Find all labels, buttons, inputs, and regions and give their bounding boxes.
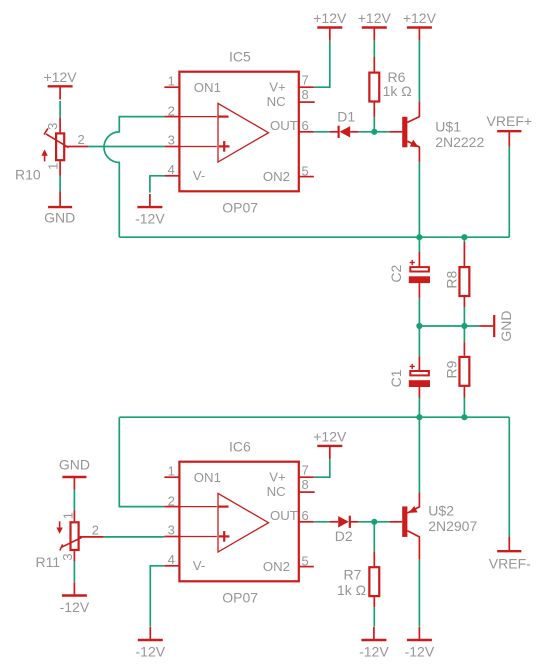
- svg-text:ON2: ON2: [263, 559, 290, 574]
- svg-text:+12V: +12V: [313, 428, 347, 444]
- svg-text:6: 6: [302, 118, 309, 133]
- capacitor C2: [409, 260, 430, 283]
- R11 pin 3 stub: [73, 551, 75, 561]
- IC6 pin 7 stub: [299, 476, 314, 478]
- wire R11 wiper to IC6 pin 3: [104, 536, 165, 538]
- svg-text:2: 2: [92, 523, 99, 538]
- IC5 pin 6 stub: [299, 131, 314, 133]
- svg-text:D2: D2: [335, 528, 353, 544]
- +12V supply symbol (IC6 V+): [313, 428, 347, 459]
- diode D1: [339, 126, 351, 138]
- U$1 emitter lead: [407, 141, 419, 162]
- wire mid rail (GND net): [419, 325, 479, 327]
- svg-text:3: 3: [45, 123, 60, 130]
- U$1 emitter arrow: [410, 140, 419, 147]
- junction bottom rail/C1: [416, 414, 422, 420]
- op-amp IC6: [164, 438, 314, 605]
- IC6 pin 8 stub: [299, 491, 315, 493]
- svg-text:8: 8: [302, 477, 309, 492]
- svg-text:IC5: IC5: [229, 48, 251, 64]
- svg-text:D1: D1: [337, 108, 355, 124]
- wire R7 to -12V: [373, 607, 375, 626]
- svg-text:OP07: OP07: [222, 200, 258, 216]
- wire IC5 pin 4 to -12V: [150, 176, 165, 193]
- +12V supply symbol (R10 top): [44, 69, 78, 100]
- svg-text:8: 8: [302, 87, 309, 102]
- IC5 inverting input line: [179, 116, 217, 118]
- VREF- supply symbol: [489, 537, 531, 572]
- junction bottom rail/R9: [461, 414, 467, 420]
- svg-text:1: 1: [168, 464, 175, 479]
- svg-text:2N2222: 2N2222: [435, 134, 484, 150]
- R9 top lead: [463, 342, 465, 356]
- IC5 plus sign: [219, 145, 230, 147]
- junction rail/R8: [461, 234, 467, 240]
- svg-text:4: 4: [168, 552, 175, 567]
- svg-text:OUT: OUT: [270, 508, 298, 523]
- svg-text:7: 7: [302, 72, 309, 87]
- R11 body: [71, 522, 79, 550]
- wire GND to R11 pin 1: [73, 490, 75, 511]
- IC5 pin 2 stub: [164, 116, 179, 118]
- wire R10 wiper to IC5 pin 3: [88, 146, 164, 148]
- wire R6 to node D1/base: [373, 117, 375, 132]
- +12V supply symbol (R6 top): [358, 10, 392, 41]
- svg-text:ON2: ON2: [263, 169, 290, 184]
- IC6 body: [179, 462, 298, 582]
- GND symbol (mid, rotated): [479, 311, 514, 342]
- svg-text:V+: V+: [269, 80, 286, 95]
- svg-text:V-: V-: [193, 558, 205, 573]
- potentiometer R11: [36, 512, 104, 570]
- svg-text:R10: R10: [15, 166, 41, 182]
- svg-text:3: 3: [168, 523, 175, 538]
- R7 top lead: [373, 552, 375, 566]
- wire bottom rail (VREF- net): [119, 416, 509, 418]
- C2 negative plate: [409, 276, 430, 283]
- wire mid rail to C1: [418, 326, 420, 356]
- IC6 pin 2 stub: [164, 506, 179, 508]
- svg-text:R11: R11: [36, 554, 61, 570]
- wire +12V to U$1 collector: [418, 41, 420, 102]
- svg-text:1: 1: [45, 163, 60, 170]
- R11 adjust arrow: [59, 521, 61, 528]
- C1 positive plate: [410, 371, 429, 375]
- junction mid rail/C2-C1: [416, 323, 422, 329]
- svg-text:ON1: ON1: [194, 470, 221, 485]
- wire rail to C2: [418, 237, 420, 252]
- VREF+ supply symbol: [487, 113, 533, 147]
- svg-text:6: 6: [302, 508, 309, 523]
- svg-text:2: 2: [78, 132, 85, 147]
- R11 pin 2 stub: [80, 536, 104, 538]
- svg-text:1: 1: [60, 512, 75, 519]
- svg-text:1k Ω: 1k Ω: [337, 582, 366, 598]
- wire IC6 pin 4 to -12V: [150, 566, 164, 627]
- C1 negative lead: [418, 387, 420, 398]
- IC6 plus sign: [219, 535, 230, 537]
- R10 pin 1 stub: [59, 161, 61, 176]
- wire VREF+ down to rail: [508, 147, 510, 237]
- svg-text:NC: NC: [267, 94, 287, 109]
- svg-text:-12V: -12V: [135, 211, 165, 227]
- IC5 triangle: [218, 103, 269, 162]
- resistor R7: [369, 567, 379, 596]
- wire IC5 pin 2 feedback (with hop over pin 3 wire): [104, 117, 164, 238]
- R8 top lead: [463, 242, 465, 266]
- U$2 emitter lead: [407, 492, 419, 513]
- wire bottom rail to IC6 pin 2 feedback: [119, 417, 164, 506]
- wire +12V to R10 pin 3: [59, 101, 61, 118]
- GND symbol (above R11): [59, 456, 90, 489]
- svg-text:+12V: +12V: [358, 10, 392, 26]
- svg-text:NC: NC: [267, 484, 287, 499]
- wire bottom rail to VREF-: [508, 417, 510, 536]
- IC5 pin 5 stub: [299, 176, 314, 178]
- -12V supply symbol (U$2 collector): [405, 627, 435, 660]
- svg-text:3: 3: [60, 553, 75, 560]
- wire R11 pin 3 to -12V: [73, 561, 75, 582]
- R10 wiper: [44, 128, 69, 147]
- GND symbol (below R10): [44, 191, 75, 225]
- R6 pin 1 stub: [373, 57, 375, 72]
- wire D2 to node: [358, 521, 374, 523]
- IC5 minus sign: [218, 115, 229, 117]
- svg-text:-12V: -12V: [405, 644, 435, 660]
- svg-text:GND: GND: [59, 456, 90, 472]
- svg-text:V-: V-: [193, 168, 205, 183]
- svg-text:-12V: -12V: [60, 599, 90, 615]
- wire bottom rail to U$2 emitter: [418, 417, 420, 492]
- wire D1 to node: [358, 131, 374, 133]
- resistor R6: [369, 73, 379, 102]
- svg-text:C2: C2: [388, 264, 404, 282]
- wire node to R7: [373, 522, 375, 552]
- R10 pin 3 stub: [59, 118, 61, 133]
- C2 plus sign: [410, 262, 415, 264]
- IC6 triangle: [218, 493, 269, 552]
- IC6 minus sign: [218, 506, 229, 508]
- resistor R9: [459, 357, 469, 386]
- U$2 base lead: [389, 521, 402, 523]
- svg-text:R9: R9: [444, 360, 460, 378]
- svg-text:5: 5: [302, 163, 309, 178]
- wire IC5 OUT to D1: [314, 131, 330, 133]
- IC6 pin 4 stub: [164, 565, 179, 567]
- svg-text:OP07: OP07: [222, 590, 258, 606]
- svg-text:IC6: IC6: [229, 438, 251, 454]
- IC6 pin 6 stub: [299, 521, 314, 523]
- wire R9 to bottom rail: [463, 398, 465, 418]
- wire node to U$1 base: [374, 131, 389, 133]
- wire IC6 OUT to D2: [314, 521, 330, 523]
- R10 pin 2 stub: [65, 146, 88, 148]
- junction rail/C2: [416, 234, 422, 240]
- capacitor C1: [409, 364, 430, 387]
- U$2 collector lead: [407, 531, 419, 560]
- wire mid rail to R9: [463, 326, 465, 342]
- svg-text:U$1: U$1: [435, 118, 461, 134]
- junction node D1/R6/U$1 base: [371, 129, 377, 135]
- svg-text:2N2907: 2N2907: [428, 518, 477, 534]
- svg-text:VREF-: VREF-: [489, 555, 531, 571]
- svg-text:C1: C1: [388, 369, 404, 387]
- transistor U$1 (NPN 2N2222): [389, 102, 484, 162]
- U$1 collector lead: [407, 102, 419, 122]
- wire C2 to mid rail: [418, 298, 420, 326]
- IC6 pin 5 stub: [299, 566, 314, 568]
- svg-text:GND: GND: [44, 210, 75, 226]
- svg-text:2: 2: [168, 103, 175, 118]
- R6 pin 2 stub: [373, 103, 375, 118]
- wire +12V to IC5 pin 7: [314, 41, 330, 87]
- U$2 base bar: [402, 506, 407, 537]
- IC6 non-inverting input line: [179, 536, 217, 538]
- R10 adjust arrow: [44, 155, 46, 162]
- -12V supply symbol (IC5 V-): [135, 194, 165, 227]
- IC5 pin 8 stub: [299, 101, 315, 103]
- C1 plus sign: [410, 365, 415, 367]
- -12V supply symbol (IC6 V-): [136, 627, 166, 660]
- IC5 pin 4 stub: [164, 175, 179, 177]
- IC5 non-inverting input line: [179, 146, 217, 148]
- IC6 pin 3 stub: [164, 536, 179, 538]
- D1 anode lead: [350, 131, 358, 133]
- svg-text:4: 4: [168, 162, 175, 177]
- U$1 base lead: [389, 131, 402, 133]
- wire C1 to bottom rail: [418, 398, 420, 418]
- wire R8 to mid rail: [463, 307, 465, 326]
- svg-text:5: 5: [302, 553, 309, 568]
- wire U$2 collector to -12V: [418, 560, 420, 627]
- R11 wiper: [60, 537, 82, 550]
- R11 pin 1 stub: [73, 510, 75, 521]
- svg-text:7: 7: [302, 462, 309, 477]
- diode D2: [338, 516, 350, 528]
- U$2 emitter arrow: [409, 506, 418, 513]
- svg-text:GND: GND: [498, 311, 514, 342]
- wire U$1 emitter to rail: [418, 162, 420, 237]
- svg-text:VREF+: VREF+: [487, 113, 533, 129]
- C1 positive lead: [418, 356, 420, 371]
- R8 bottom lead: [463, 297, 465, 307]
- svg-text:-12V: -12V: [136, 644, 166, 660]
- IC5 pin 3 stub: [164, 146, 179, 148]
- svg-text:OUT: OUT: [270, 118, 298, 133]
- R9 bottom lead: [463, 387, 465, 398]
- +12V supply symbol (IC5 V+): [313, 10, 347, 41]
- IC5 pin 1 stub: [164, 86, 179, 88]
- svg-text:3: 3: [168, 133, 175, 148]
- C2 positive lead: [418, 252, 420, 267]
- svg-text:-12V: -12V: [359, 644, 389, 660]
- svg-text:V+: V+: [269, 470, 286, 485]
- svg-text:R7: R7: [344, 567, 362, 583]
- -12V supply symbol (below R7): [359, 627, 389, 660]
- resistor R8: [459, 267, 469, 296]
- svg-text:R8: R8: [444, 271, 460, 289]
- svg-text:+12V: +12V: [313, 10, 347, 26]
- IC5 body: [179, 72, 298, 192]
- IC6 inverting input line: [179, 506, 217, 508]
- svg-text:ON1: ON1: [194, 80, 221, 95]
- +12V supply symbol (U$1 collector): [403, 10, 437, 41]
- op-amp IC5: [164, 48, 314, 215]
- svg-text:1k Ω: 1k Ω: [383, 83, 412, 99]
- IC6 pin 1 stub: [164, 476, 179, 478]
- R7 bottom lead: [373, 597, 375, 607]
- potentiometer R10: [15, 123, 88, 183]
- wire R10 pin 1 to GND: [59, 176, 61, 191]
- wire +12V to IC6 pin 7: [314, 459, 330, 477]
- D2 leads: [330, 521, 339, 523]
- R10 body: [56, 133, 64, 160]
- wire +12V to R6: [373, 41, 375, 57]
- C1 negative plate: [409, 380, 430, 387]
- -12V supply symbol (below R11): [60, 582, 90, 615]
- svg-text:2: 2: [168, 493, 175, 508]
- svg-text:U$2: U$2: [428, 503, 454, 519]
- junction node D2/R7/U$2 base: [371, 519, 377, 525]
- U$1 base bar: [402, 117, 407, 148]
- wire top rail (VREF+ net): [119, 236, 509, 238]
- IC5 pin 7 stub: [299, 86, 314, 88]
- svg-text:1: 1: [168, 74, 175, 89]
- wire node to U$2 base: [374, 521, 389, 523]
- junction mid rail/R8-R9: [461, 323, 467, 329]
- transistor U$2 (PNP 2N2907): [389, 492, 477, 560]
- C2 positive plate: [410, 267, 429, 271]
- svg-text:+12V: +12V: [403, 10, 437, 26]
- C2 negative lead: [418, 283, 420, 298]
- svg-text:+12V: +12V: [44, 69, 78, 85]
